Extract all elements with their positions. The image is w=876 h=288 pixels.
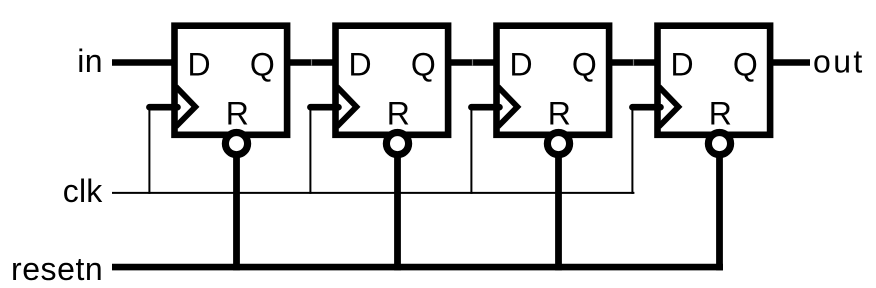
- D flip-flop U3: [497, 26, 610, 135]
- wire clk stub into U1 clock pin: [149, 104, 177, 111]
- wire U3 Q to U4 D: [606, 59, 660, 66]
- svg-text:resetn: resetn: [11, 251, 103, 287]
- reset bubble on U4 R pin: [708, 133, 730, 155]
- wire resetn branch 3 vertical: [555, 144, 562, 271]
- wire clk stub into U3 clock pin: [471, 104, 499, 111]
- wire in to U1 D: [112, 59, 178, 66]
- U1 clock edge triangle: [176, 87, 196, 127]
- wire joint seam: [472, 59, 474, 66]
- wire clk branch 3 vertical: [470, 104, 472, 194]
- wire joint seam: [633, 59, 635, 66]
- svg-text:Q: Q: [250, 47, 275, 83]
- svg-text:R: R: [548, 96, 571, 132]
- wire resetn branch 2 vertical: [394, 144, 401, 271]
- wire clk rail: [112, 192, 634, 194]
- wire joint seam: [311, 59, 313, 66]
- wire clk stub into U2 clock pin: [310, 104, 338, 111]
- wire clk branch 2 vertical: [309, 104, 311, 194]
- U4 clock edge triangle: [659, 87, 679, 127]
- svg-text:Q: Q: [411, 47, 436, 83]
- svg-text:out: out: [813, 44, 865, 80]
- U3 clock edge triangle: [498, 87, 518, 127]
- reset bubble on U1 R pin: [225, 133, 247, 155]
- wire clk branch 4 vertical: [631, 104, 633, 194]
- reset bubble on U2 R pin: [386, 133, 408, 155]
- svg-text:in: in: [77, 43, 103, 79]
- wire resetn branch 1 vertical: [233, 144, 240, 271]
- svg-text:D: D: [349, 47, 372, 83]
- svg-text:R: R: [709, 96, 732, 132]
- svg-text:D: D: [510, 47, 533, 83]
- svg-text:Q: Q: [572, 47, 597, 83]
- wire U4 Q to out: [767, 59, 810, 66]
- wire clk branch 1 vertical: [148, 104, 150, 194]
- D flip-flop U4: [658, 26, 771, 135]
- svg-text:R: R: [226, 96, 249, 132]
- wire resetn rail: [112, 264, 723, 271]
- svg-text:clk: clk: [63, 173, 103, 209]
- D flip-flop U2: [336, 26, 449, 135]
- svg-text:Q: Q: [733, 47, 758, 83]
- svg-text:R: R: [387, 96, 410, 132]
- wire clk stub into U4 clock pin: [632, 104, 660, 111]
- wire U1 Q to U2 D: [284, 59, 338, 66]
- wire resetn branch 4 vertical: [716, 144, 723, 271]
- svg-text:D: D: [188, 47, 211, 83]
- D flip-flop U1: [175, 26, 288, 135]
- wire U2 Q to U3 D: [445, 59, 499, 66]
- reset bubble on U3 R pin: [547, 133, 569, 155]
- U2 clock edge triangle: [337, 87, 357, 127]
- svg-text:D: D: [671, 47, 694, 83]
